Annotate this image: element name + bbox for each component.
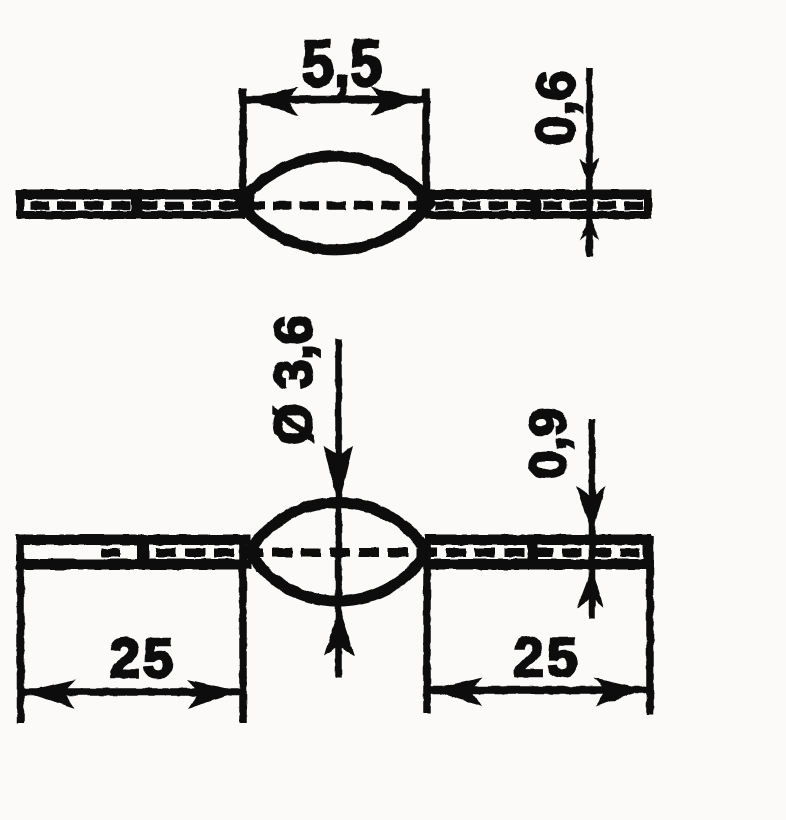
svg-text:25: 25 <box>513 626 580 688</box>
svg-text:0,9: 0,9 <box>519 408 576 479</box>
svg-text:0,6: 0,6 <box>526 70 586 145</box>
svg-text:5,5: 5,5 <box>302 26 382 100</box>
svg-text:Ø 3,6: Ø 3,6 <box>265 315 324 445</box>
svg-text:25: 25 <box>109 627 176 689</box>
